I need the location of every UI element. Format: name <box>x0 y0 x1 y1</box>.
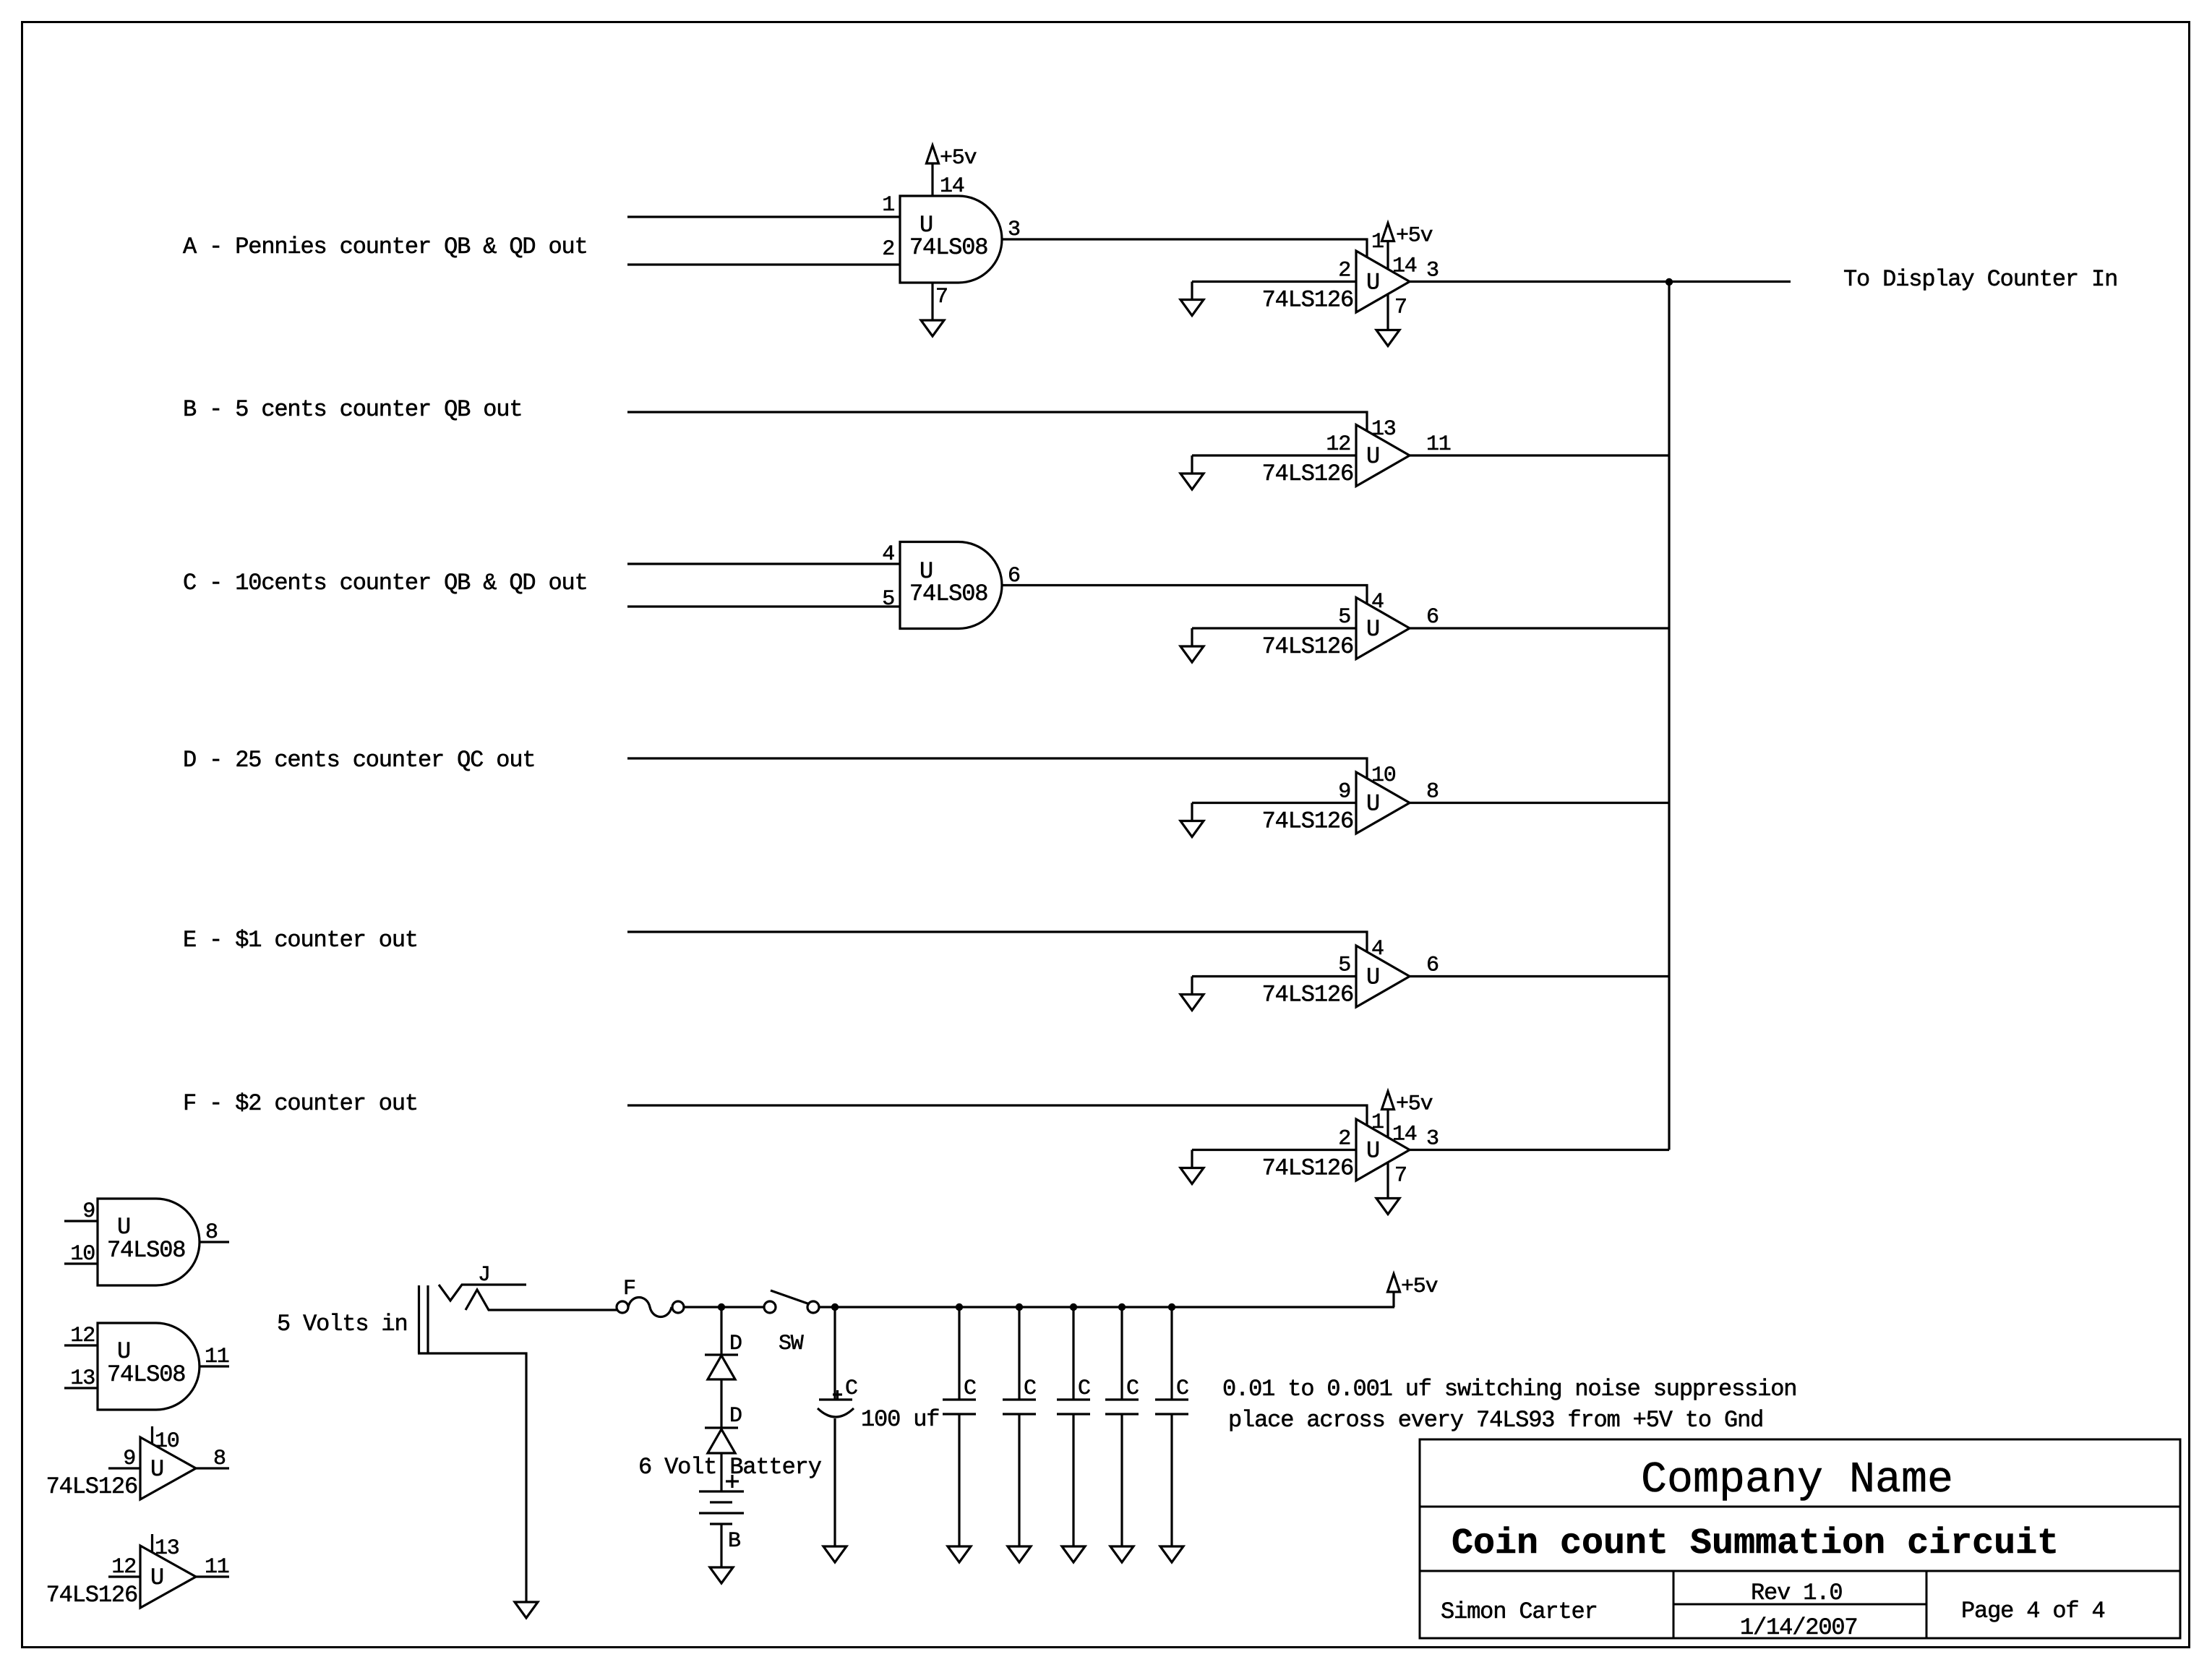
wire to diode D1 <box>720 1307 722 1355</box>
wire rail to C1 <box>833 1307 836 1400</box>
svg-text:U: U <box>1366 616 1379 643</box>
buffer U7 74LS126 <box>1356 946 1410 1007</box>
diode D2 <box>705 1428 738 1453</box>
svg-text:U: U <box>1366 270 1379 296</box>
svg-text:8: 8 <box>205 1220 218 1245</box>
fuse F left circle <box>617 1301 628 1313</box>
svg-text:SW: SW <box>779 1332 804 1356</box>
svg-text:A - Pennies counter QB & QD ou: A - Pennies counter QB & QD out <box>183 234 588 260</box>
jack J tip contact <box>466 1290 617 1310</box>
svg-text:74LS126: 74LS126 <box>1262 808 1353 835</box>
U3 +5v symbol <box>1382 223 1394 241</box>
svg-text:12: 12 <box>1326 432 1350 457</box>
U6 input ground stub <box>1191 803 1193 821</box>
svg-text:10: 10 <box>70 1242 95 1267</box>
+5v rail arrow wire <box>1392 1292 1394 1307</box>
switch SW left circle <box>764 1301 776 1313</box>
U4 input ground stub <box>1191 455 1193 474</box>
svg-text:J: J <box>478 1263 490 1288</box>
U3 pin14 wire <box>1386 241 1389 270</box>
buffer U3 74LS126 <box>1356 251 1410 312</box>
U1 pin14 wire <box>931 163 933 196</box>
title block frame <box>1420 1439 2180 1638</box>
wire enable row B <box>627 412 1367 431</box>
U5 input ground <box>1180 646 1204 662</box>
wire battery to ground <box>720 1524 722 1567</box>
svg-text:6: 6 <box>1426 605 1439 630</box>
svg-text:5: 5 <box>1338 954 1350 978</box>
svg-text:1: 1 <box>882 193 894 218</box>
svg-text:F: F <box>623 1277 635 1301</box>
wire C pin5 <box>627 605 900 607</box>
wire rail to C4 <box>1072 1307 1074 1400</box>
U4 input wire <box>1192 454 1356 456</box>
and-gate U2 74LS08 <box>900 542 1002 629</box>
capacitor C2 <box>943 1400 976 1414</box>
wire A pin2 <box>627 263 900 265</box>
svg-text:4: 4 <box>1371 937 1384 962</box>
svg-text:U: U <box>1366 791 1379 818</box>
svg-text:74LS126: 74LS126 <box>1262 461 1353 487</box>
power rail wire <box>820 1306 1395 1308</box>
spare buf b enable stub <box>151 1534 153 1553</box>
svg-text:8: 8 <box>1426 780 1439 805</box>
wire C6 to ground <box>1170 1414 1173 1546</box>
wire enable row E <box>627 932 1367 952</box>
svg-text:6: 6 <box>1426 954 1439 978</box>
battery B plus sign <box>726 1475 739 1488</box>
svg-text:F - $2 counter out: F - $2 counter out <box>183 1090 418 1117</box>
U1 +5v symbol <box>927 145 939 163</box>
svg-text:D: D <box>729 1332 742 1356</box>
switch SW blade <box>771 1290 810 1304</box>
svg-text:100 uf: 100 uf <box>861 1406 939 1433</box>
U8 input wire <box>1192 1149 1356 1151</box>
svg-text:12: 12 <box>111 1555 136 1580</box>
spare a out wire <box>200 1241 229 1243</box>
jack J barrel left <box>418 1285 420 1353</box>
capacitor C1 plus sign <box>833 1390 842 1400</box>
U4 output wire <box>1410 454 1669 456</box>
wire rail to C5 <box>1120 1307 1123 1400</box>
svg-text:14: 14 <box>940 174 964 199</box>
svg-text:C: C <box>1176 1376 1188 1401</box>
junction C6 <box>1168 1303 1175 1311</box>
svg-text:6 Volt Battery: 6 Volt Battery <box>638 1454 822 1481</box>
spare buf b out wire <box>196 1575 229 1577</box>
jack J sleeve wire <box>418 1353 526 1602</box>
svg-text:13: 13 <box>1371 417 1396 442</box>
svg-text:9: 9 <box>123 1447 135 1471</box>
svg-text:2: 2 <box>882 237 894 262</box>
svg-text:3: 3 <box>1426 259 1439 283</box>
capacitor C6 <box>1155 1400 1188 1414</box>
svg-text:Company Name: Company Name <box>1641 1456 1953 1505</box>
U3 output wire <box>1410 281 1791 283</box>
wire C2 to ground <box>958 1414 960 1546</box>
svg-text:C - 10cents counter QB & QD ou: C - 10cents counter QB & QD out <box>183 570 588 596</box>
svg-text:B - 5 cents counter QB out: B - 5 cents counter QB out <box>183 396 522 423</box>
svg-text:U: U <box>1366 1138 1379 1165</box>
wire C pin4 <box>627 562 900 565</box>
svg-text:2: 2 <box>1338 259 1350 283</box>
U8 input ground stub <box>1191 1150 1193 1168</box>
svg-text:14: 14 <box>1392 1123 1417 1147</box>
wire rail to C3 <box>1018 1307 1020 1400</box>
capacitor C5 <box>1105 1400 1139 1414</box>
svg-text:+5v: +5v <box>1396 224 1433 249</box>
switch SW right circle <box>807 1301 819 1313</box>
U3 input ground stub <box>1191 282 1193 300</box>
U7 input ground stub <box>1191 977 1193 995</box>
svg-text:10: 10 <box>155 1429 179 1454</box>
U8 output wire <box>1410 1149 1669 1151</box>
wire enable row D <box>627 758 1367 779</box>
svg-text:74LS08: 74LS08 <box>107 1361 185 1388</box>
svg-text:4: 4 <box>1371 590 1384 615</box>
svg-text:74LS08: 74LS08 <box>909 581 987 607</box>
U6 output wire <box>1410 802 1669 804</box>
U3 ground <box>1376 330 1399 346</box>
spare buf a input wire <box>108 1467 140 1469</box>
wire C4 to ground <box>1072 1414 1074 1546</box>
svg-text:74LS08: 74LS08 <box>909 234 987 261</box>
svg-text:Coin count Summation circuit: Coin count Summation circuit <box>1452 1523 2059 1564</box>
svg-text:5: 5 <box>1338 605 1350 630</box>
diode D1 <box>705 1355 738 1379</box>
svg-text:5 Volts in: 5 Volts in <box>277 1311 408 1337</box>
wire C1 to ground <box>833 1418 836 1546</box>
U5 input ground stub <box>1191 628 1193 646</box>
svg-text:1: 1 <box>1371 1110 1384 1135</box>
capacitor C5 ground <box>1110 1546 1133 1562</box>
svg-text:7: 7 <box>1394 296 1407 320</box>
wire enable row F <box>627 1105 1367 1126</box>
spare buffer 74LS126 b <box>140 1546 196 1608</box>
junction diode branch <box>718 1303 725 1311</box>
svg-text:13: 13 <box>70 1366 95 1391</box>
wire rail to C2 <box>958 1307 960 1400</box>
svg-text:E - $1 counter out: E - $1 counter out <box>183 927 418 954</box>
svg-text:+5v: +5v <box>1396 1092 1433 1117</box>
wire U1 out <box>1002 239 1367 257</box>
svg-text:11: 11 <box>205 1555 229 1580</box>
svg-text:74LS126: 74LS126 <box>1262 1155 1353 1182</box>
svg-text:+5v: +5v <box>940 146 977 171</box>
U8 pin14 wire <box>1386 1110 1389 1138</box>
fuse F element <box>628 1298 672 1317</box>
svg-text:3: 3 <box>1426 1127 1439 1152</box>
svg-text:C: C <box>845 1376 857 1401</box>
U6 input wire <box>1192 802 1356 804</box>
svg-text:8: 8 <box>213 1447 226 1471</box>
svg-text:U: U <box>150 1456 163 1483</box>
svg-text:B: B <box>728 1529 740 1554</box>
buffer U5 74LS126 <box>1356 598 1410 659</box>
svg-text:D - 25 cents counter QC out: D - 25 cents counter QC out <box>183 747 535 774</box>
svg-text:Page 4 of 4: Page 4 of 4 <box>1961 1598 2105 1624</box>
svg-text:7: 7 <box>935 285 948 309</box>
jack J barrel right <box>426 1285 429 1353</box>
spare buf b input wire <box>108 1575 140 1577</box>
svg-text:9: 9 <box>1338 780 1350 805</box>
wire C3 to ground <box>1018 1414 1020 1546</box>
svg-text:74LS126: 74LS126 <box>46 1582 137 1609</box>
spare buf a out wire <box>196 1467 229 1469</box>
wire U2 out <box>1002 586 1367 604</box>
U7 input wire <box>1192 975 1356 977</box>
svg-text:U: U <box>1366 964 1379 991</box>
spare and-gate 74LS08 b <box>98 1323 200 1410</box>
junction C4 <box>1070 1303 1077 1311</box>
buffer U4 74LS126 <box>1356 425 1410 487</box>
wire rail to C6 <box>1170 1307 1173 1400</box>
U7 output wire <box>1410 975 1669 977</box>
svg-text:74LS126: 74LS126 <box>46 1473 137 1500</box>
svg-text:C: C <box>1024 1376 1036 1401</box>
capacitor C2 ground <box>948 1546 971 1562</box>
svg-text:D: D <box>729 1404 742 1429</box>
jack J top contact <box>439 1285 526 1301</box>
spare b pin12 wire <box>64 1344 98 1346</box>
U8 pin7 wire <box>1386 1162 1389 1199</box>
U4 input ground <box>1180 474 1204 489</box>
capacitor C4 <box>1057 1400 1090 1414</box>
U3 input wire <box>1192 281 1356 283</box>
svg-text:12: 12 <box>70 1324 95 1348</box>
svg-text:74LS08: 74LS08 <box>107 1237 185 1264</box>
+5v rail symbol <box>1388 1274 1400 1292</box>
svg-text:0.01 to 0.001 uf switching noi: 0.01 to 0.001 uf switching noise suppres… <box>1222 1376 1796 1403</box>
wire fuse to switch <box>684 1306 763 1308</box>
bus wire <box>1668 282 1670 1150</box>
svg-text:C: C <box>964 1376 976 1401</box>
jack ground <box>515 1602 538 1618</box>
spare b out wire <box>200 1365 229 1367</box>
battery ground <box>710 1567 733 1583</box>
svg-text:5: 5 <box>882 587 894 612</box>
svg-text:To Display Counter In: To Display Counter In <box>1843 266 2117 293</box>
svg-text:Simon Carter: Simon Carter <box>1441 1598 1598 1625</box>
U7 input ground <box>1180 995 1204 1011</box>
wire A pin1 <box>627 215 900 218</box>
U6 input ground <box>1180 821 1204 837</box>
spare buf a enable stub <box>151 1426 153 1444</box>
U8 ground <box>1376 1199 1399 1215</box>
svg-text:7: 7 <box>1394 1164 1407 1189</box>
fuse F right circle <box>672 1301 684 1313</box>
svg-text:4: 4 <box>882 542 894 567</box>
svg-text:13: 13 <box>155 1536 179 1561</box>
capacitor C3 ground <box>1008 1546 1031 1562</box>
spare and-gate 74LS08 a <box>98 1199 200 1285</box>
svg-text:U: U <box>1366 443 1379 470</box>
spare buffer 74LS126 a <box>140 1437 196 1499</box>
svg-text:C: C <box>1078 1376 1090 1401</box>
battery B <box>699 1491 744 1524</box>
svg-text:9: 9 <box>82 1199 95 1224</box>
svg-text:+5v: +5v <box>1401 1275 1438 1299</box>
capacitor C1 ground <box>823 1546 846 1562</box>
U1 ground <box>921 320 944 336</box>
wire D1 to D2 <box>720 1379 722 1428</box>
U5 input wire <box>1192 627 1356 629</box>
buffer U6 74LS126 <box>1356 772 1410 834</box>
wire C5 to ground <box>1120 1414 1123 1546</box>
spare a pin9 wire <box>64 1220 98 1222</box>
svg-text:C: C <box>1126 1376 1139 1401</box>
svg-text:place across every 74LS93 from: place across every 74LS93 from +5V to Gn… <box>1228 1407 1763 1434</box>
svg-text:14: 14 <box>1392 254 1417 279</box>
U8 +5v symbol <box>1382 1092 1394 1110</box>
svg-text:1/14/2007: 1/14/2007 <box>1740 1614 1857 1641</box>
U3 input ground <box>1180 300 1204 316</box>
svg-text:11: 11 <box>1426 432 1451 457</box>
spare a pin10 wire <box>64 1262 98 1264</box>
capacitor C4 ground <box>1062 1546 1085 1562</box>
U1 pin7 wire <box>931 283 933 320</box>
U8 input ground <box>1180 1168 1204 1184</box>
spare b pin13 wire <box>64 1387 98 1389</box>
U5 output wire <box>1410 627 1669 629</box>
capacitor C1 100uf <box>818 1400 854 1417</box>
svg-text:U: U <box>150 1564 163 1591</box>
svg-text:74LS126: 74LS126 <box>1262 287 1353 314</box>
svg-text:11: 11 <box>205 1345 229 1369</box>
junction bus/rowA <box>1666 278 1673 286</box>
junction C1 <box>831 1303 839 1311</box>
svg-text:Rev 1.0: Rev 1.0 <box>1751 1580 1842 1606</box>
svg-text:74LS126: 74LS126 <box>1262 633 1353 660</box>
junction C5 <box>1118 1303 1126 1311</box>
junction C3 <box>1016 1303 1023 1311</box>
capacitor C6 ground <box>1160 1546 1183 1562</box>
and-gate U1 74LS08 <box>900 196 1002 283</box>
buffer U8 74LS126 <box>1356 1119 1410 1181</box>
wire D2 to battery <box>720 1453 722 1491</box>
U3 pin7 wire <box>1386 294 1389 330</box>
svg-text:10: 10 <box>1371 763 1396 788</box>
capacitor C3 <box>1003 1400 1036 1414</box>
junction C2 <box>956 1303 963 1311</box>
svg-text:2: 2 <box>1338 1127 1350 1152</box>
svg-text:74LS126: 74LS126 <box>1262 982 1353 1009</box>
